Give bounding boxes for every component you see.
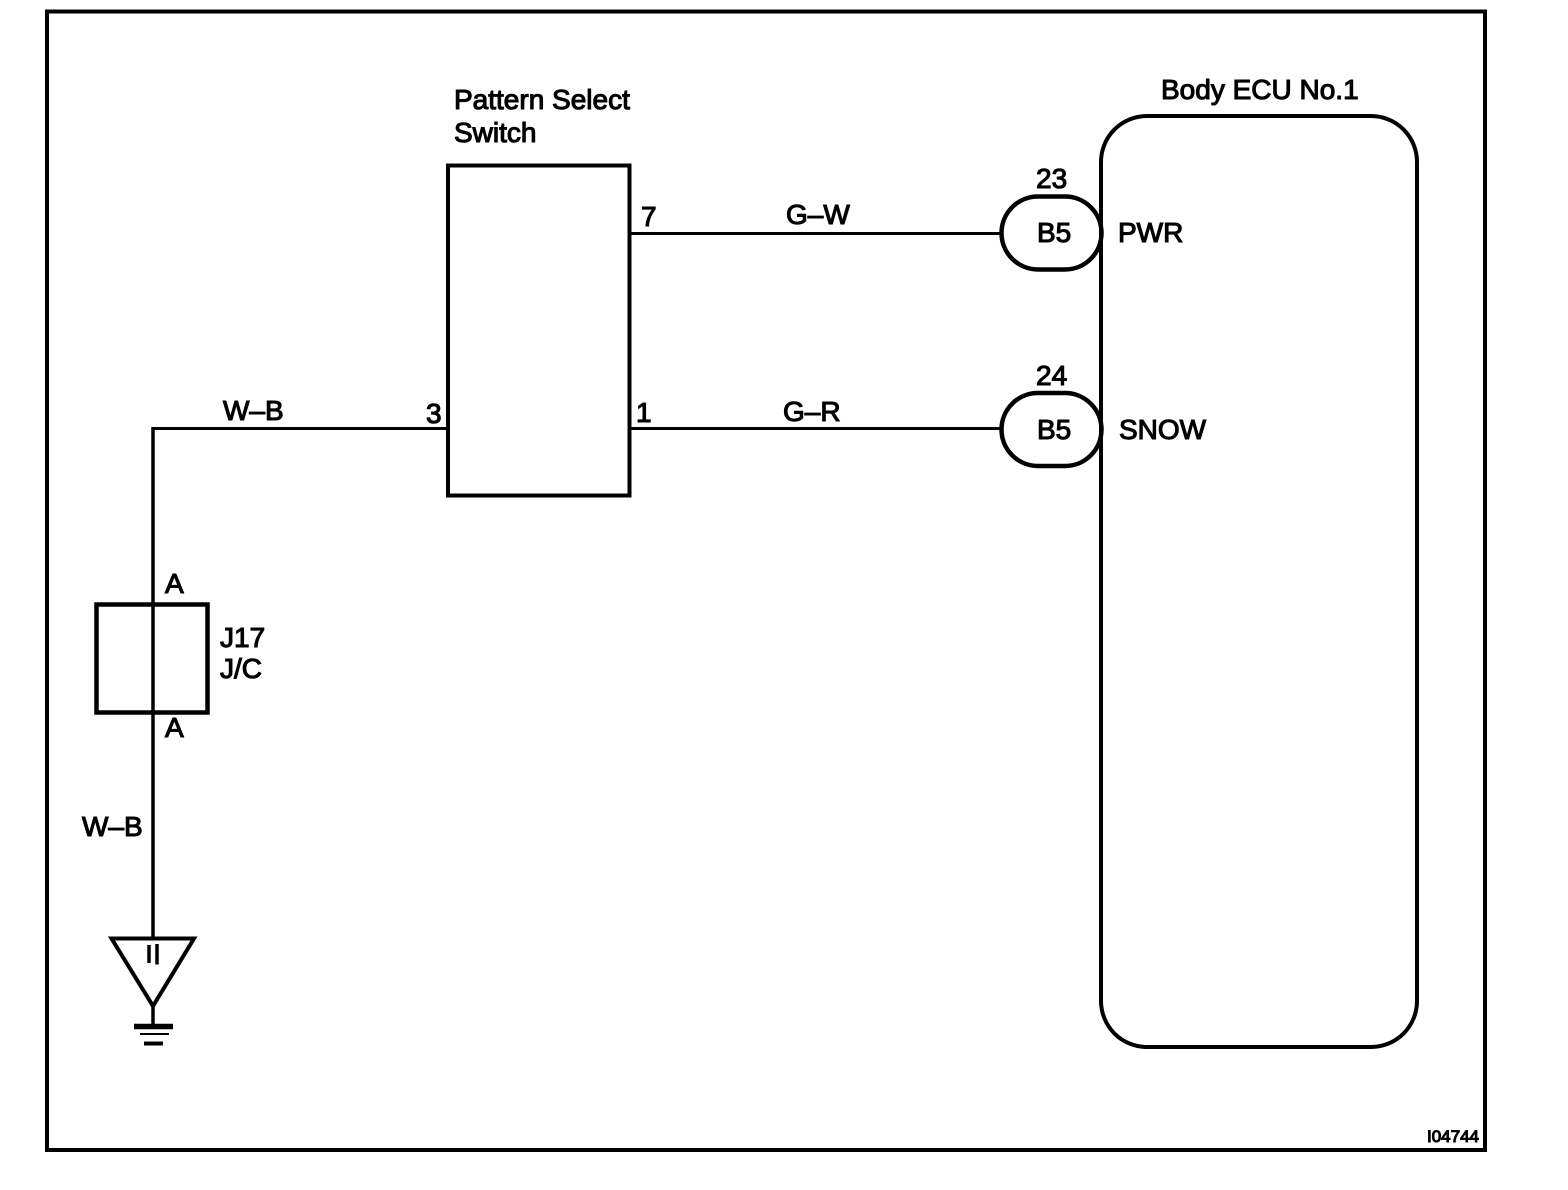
svg-text:SNOW: SNOW xyxy=(1119,414,1207,445)
svg-text:I04744: I04744 xyxy=(1427,1127,1479,1146)
svg-text:Body ECU No.1: Body ECU No.1 xyxy=(1161,74,1359,105)
svg-text:A: A xyxy=(165,568,184,599)
svg-text:24: 24 xyxy=(1036,360,1067,391)
svg-text:3: 3 xyxy=(426,398,442,429)
svg-text:B5: B5 xyxy=(1037,414,1071,445)
svg-text:W–B: W–B xyxy=(223,395,284,426)
svg-text:1: 1 xyxy=(636,397,652,428)
svg-text:J/C: J/C xyxy=(220,653,262,684)
svg-text:Pattern Select: Pattern Select xyxy=(454,84,630,115)
svg-text:PWR: PWR xyxy=(1118,217,1183,248)
svg-text:G–R: G–R xyxy=(783,396,841,427)
svg-text:A: A xyxy=(165,712,184,743)
svg-text:W–B: W–B xyxy=(82,811,143,842)
svg-text:G–W: G–W xyxy=(786,199,850,230)
svg-text:J17: J17 xyxy=(220,622,265,653)
svg-text:B5: B5 xyxy=(1037,217,1071,248)
svg-text:Switch: Switch xyxy=(454,117,536,148)
svg-text:23: 23 xyxy=(1036,163,1067,194)
svg-text:7: 7 xyxy=(641,201,657,232)
